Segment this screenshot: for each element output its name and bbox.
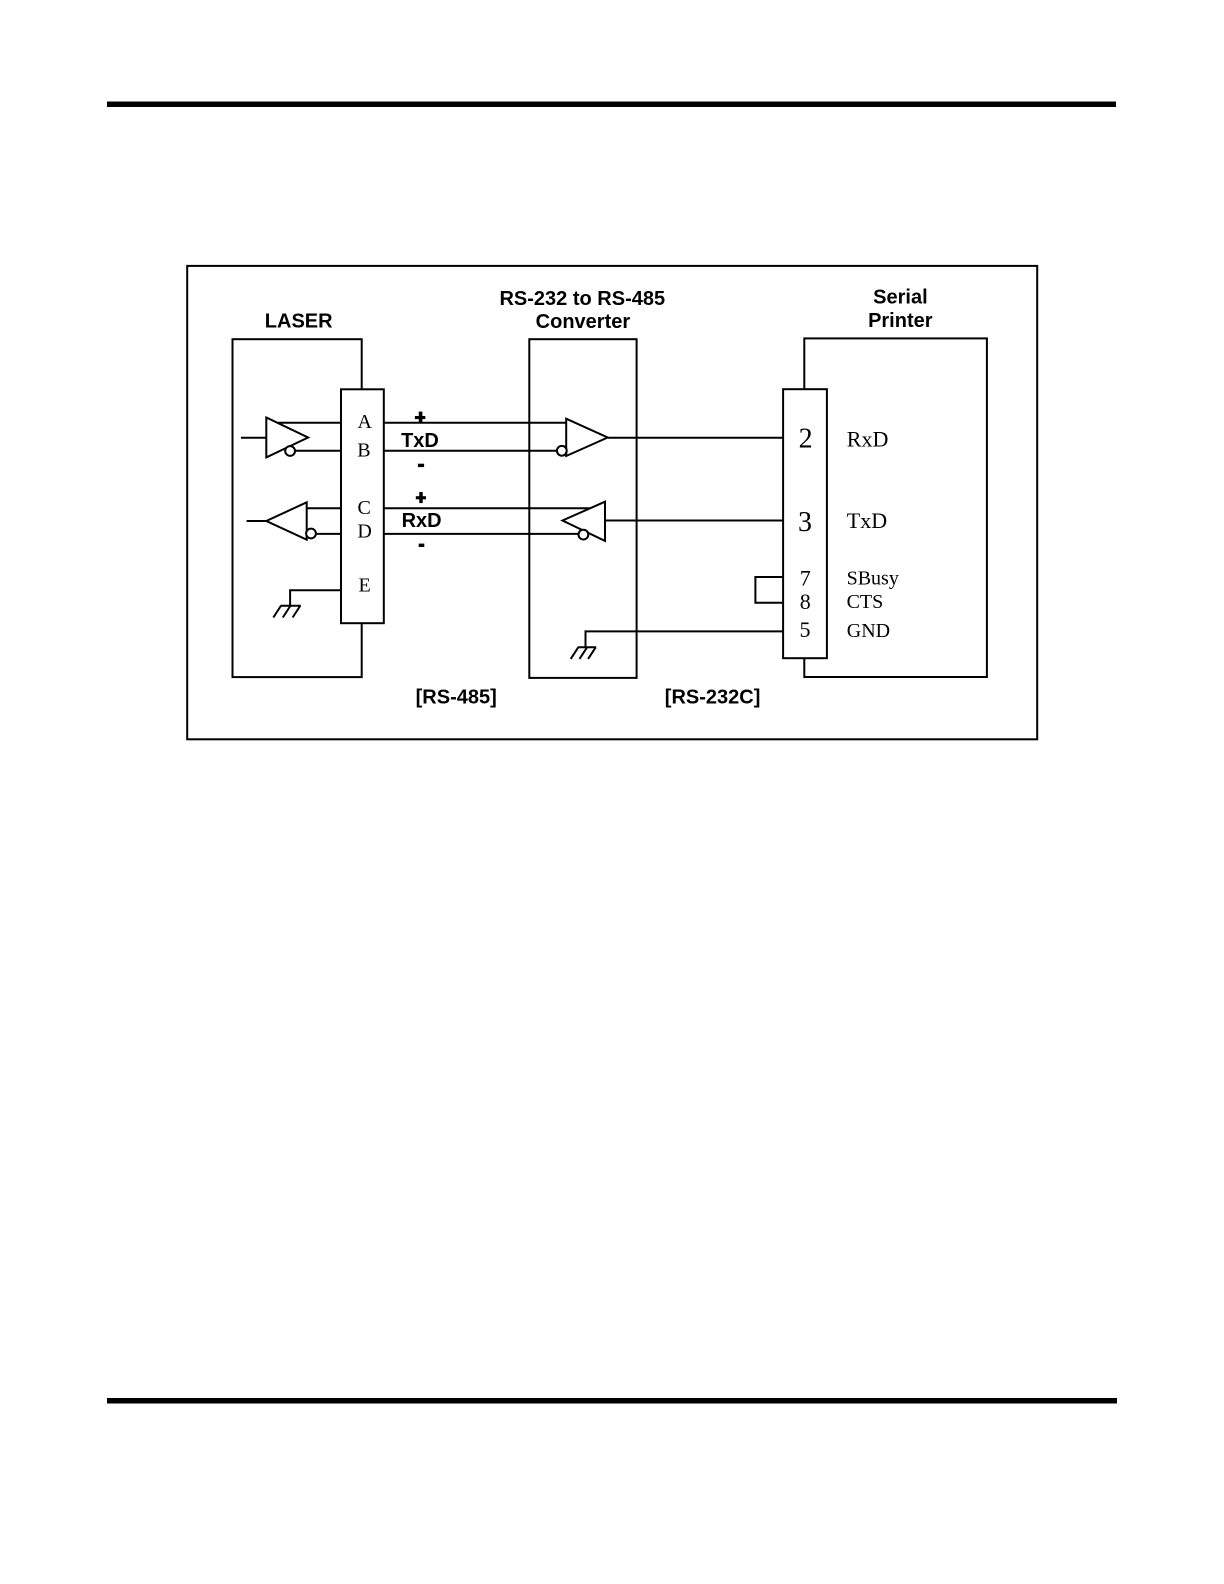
wire: converter ground to printer pin 5 [586,631,784,647]
svg-text:A: A [357,411,372,433]
svg-text:7: 7 [800,566,811,591]
svg-text:RxD: RxD [847,426,889,451]
svg-text:RxD: RxD [402,510,442,532]
top rule [107,102,1116,108]
svg-text:2: 2 [799,424,813,455]
laser terminal strip [341,389,384,623]
wire: C+ strip to converter receiver [384,507,590,509]
wire: pin E to ground [290,590,341,606]
wire: D- laser bubble to strip [316,533,341,535]
converter receiver triangle [563,502,606,541]
svg-text:C: C [358,497,371,519]
wire: B- strip to converter bubble [384,450,557,452]
wire: A+ strip to converter driver [384,422,566,424]
svg-text:B: B [357,439,370,461]
jumper pins 7-8 [755,577,783,603]
label - (RxD pair) [419,544,425,547]
svg-text:Serial: Serial [873,287,927,309]
label - (TxD pair) [418,464,424,467]
label + (RxD pair) [416,492,426,503]
svg-text:TxD: TxD [401,430,439,452]
svg-text:SBusy: SBusy [847,568,899,590]
transceiver driver triangle (laser) [266,418,308,458]
svg-text:3: 3 [798,507,812,538]
label + (TxD pair) [415,412,425,423]
converter box [529,339,636,678]
transceiver receiver triangle (laser) [266,502,306,539]
inversion bubble D (laser) [306,529,316,539]
svg-text:8: 8 [800,589,811,614]
svg-text:LASER: LASER [265,311,333,333]
inversion bubble B (laser) [285,446,295,456]
svg-text:5: 5 [800,617,811,642]
svg-text:GND: GND [847,620,890,642]
svg-text:Converter: Converter [536,311,631,333]
svg-text:[RS-232C]: [RS-232C] [665,687,761,709]
wire: driver input (laser) [241,437,266,439]
wire: receiver output (laser) [247,520,267,522]
wire: C+ laser receiver to strip [294,507,341,509]
wire: printer pin 3 to converter receiver input [605,520,783,522]
svg-text:D: D [357,521,371,543]
wire: B- laser bubble to strip [295,450,341,452]
svg-text:E: E [358,575,370,597]
LASER box [233,339,362,677]
svg-text:CTS: CTS [847,591,884,613]
svg-text:[RS-485]: [RS-485] [416,687,497,709]
inversion bubble B (converter) [557,446,567,456]
ground symbol (converter) [571,647,597,659]
bottom rule [107,1398,1117,1404]
svg-text:RS-232 to RS-485: RS-232 to RS-485 [499,288,665,310]
ground symbol (laser) [273,606,301,618]
svg-text:TxD: TxD [847,508,887,533]
wire: A+ laser driver to strip [278,422,341,424]
svg-text:Printer: Printer [868,310,933,332]
converter driver triangle [566,419,608,456]
wire: D- strip to converter bubble [384,533,579,535]
printer connector strip [783,389,827,658]
wire: converter TxD output to printer pin 2 [608,437,783,439]
serial printer box [804,338,987,677]
inversion bubble D (converter) [579,530,589,540]
diagram frame [187,266,1037,739]
